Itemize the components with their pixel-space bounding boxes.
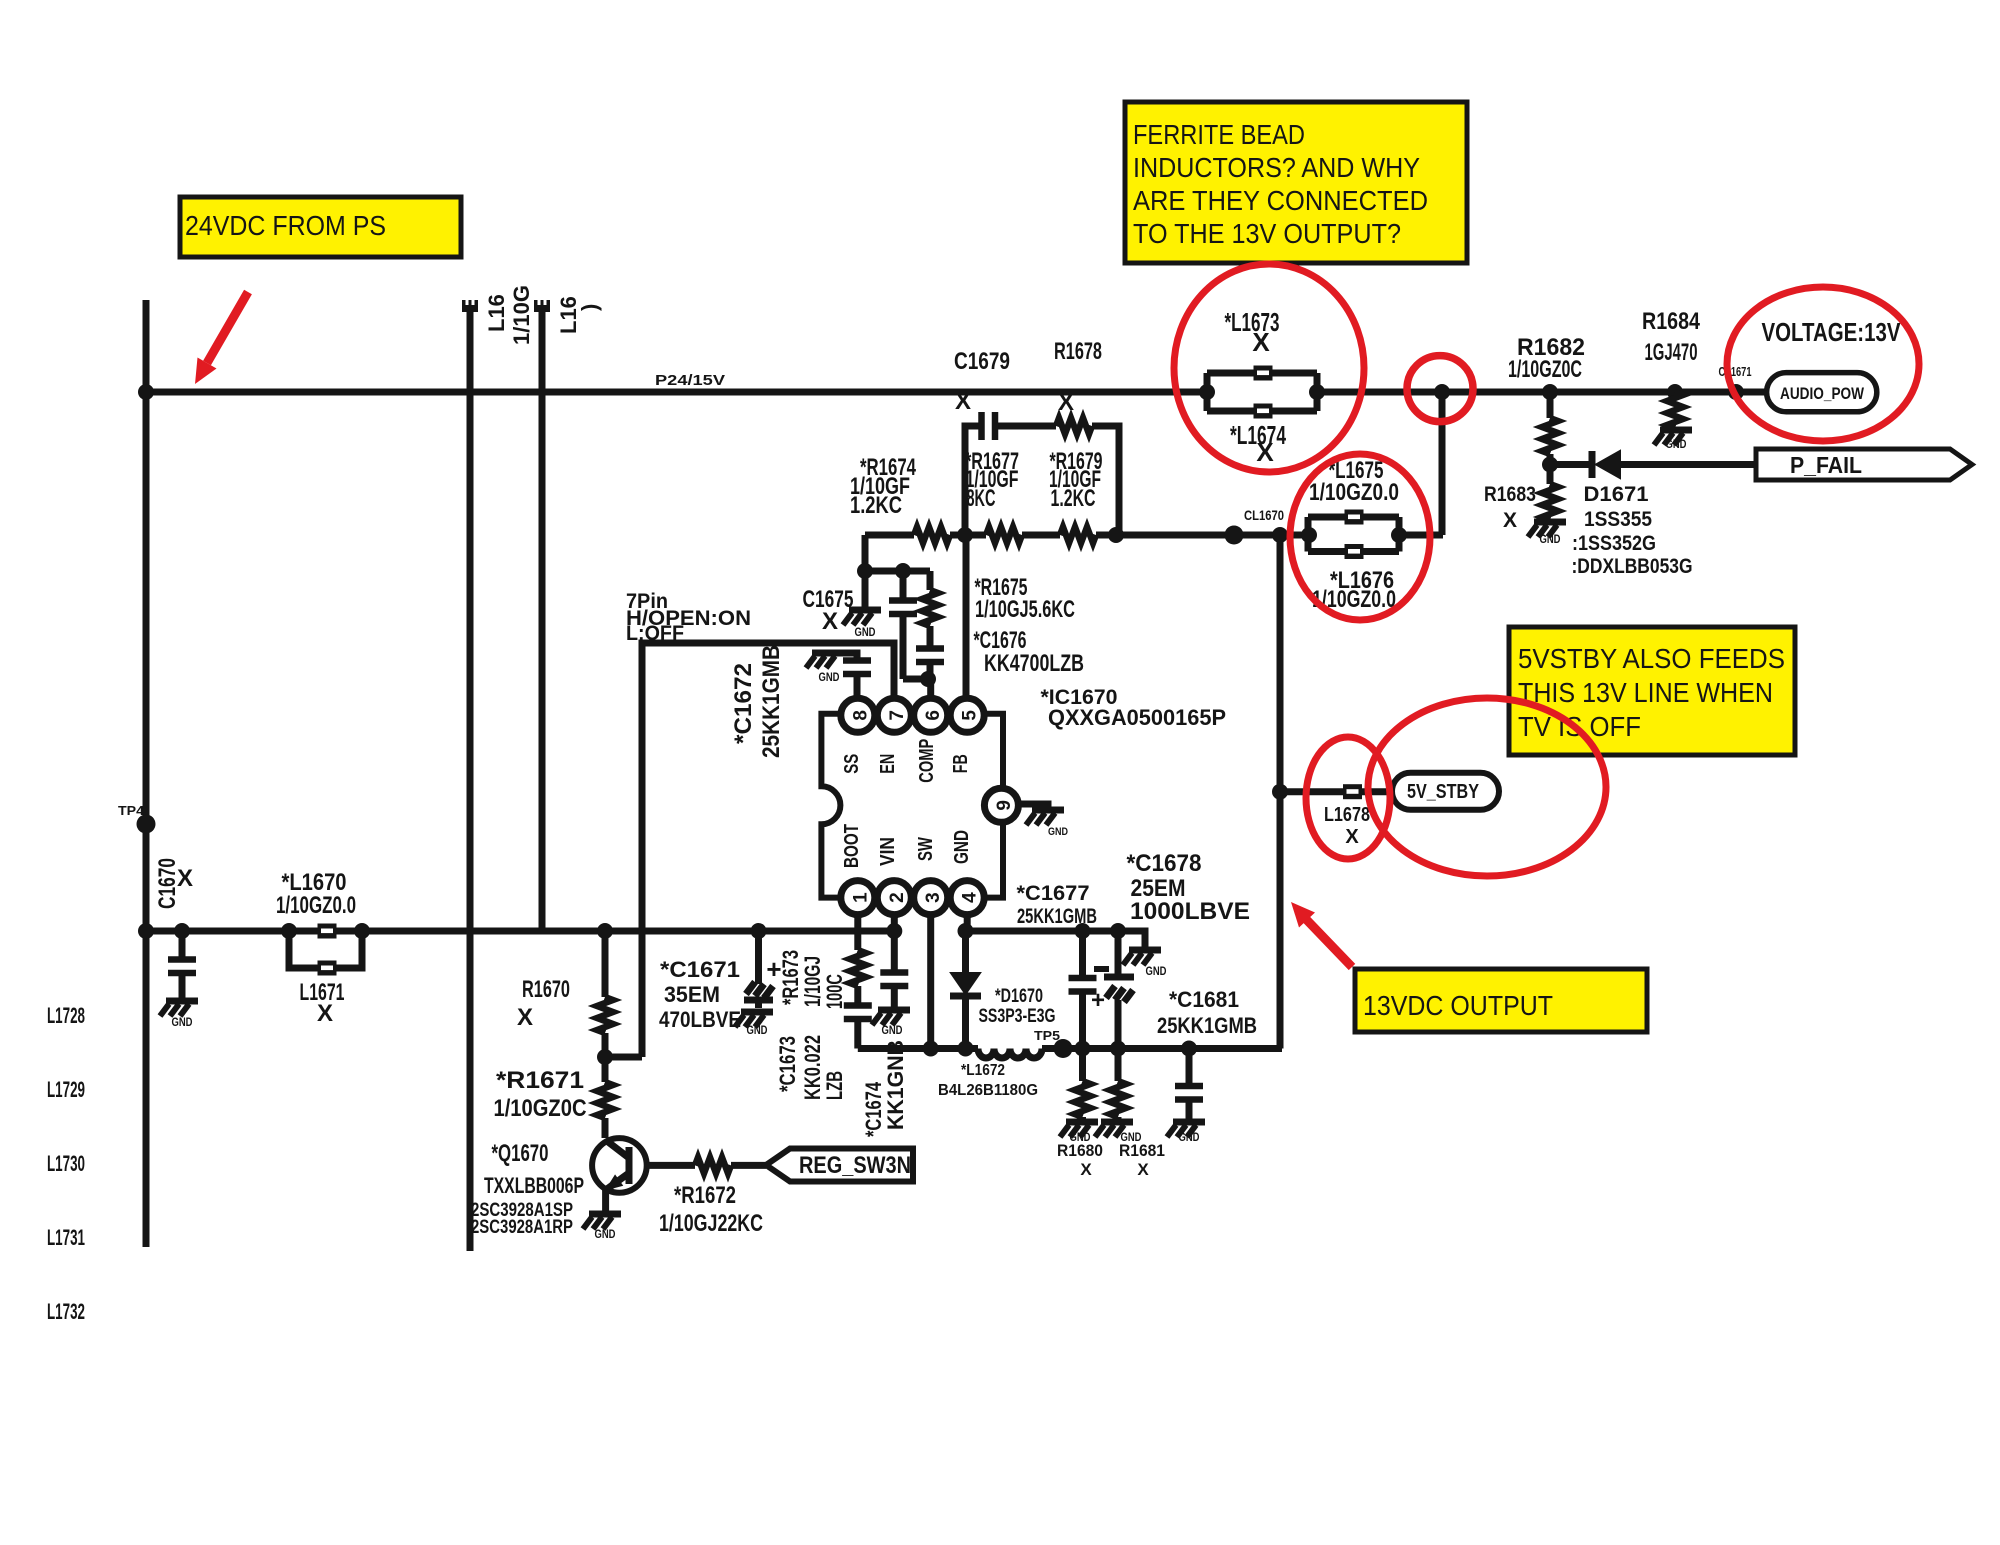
svg-text:QXXGA0500165P: QXXGA0500165P [1048, 705, 1226, 730]
svg-text:2: 2 [887, 892, 908, 903]
svg-text:R1684: R1684 [1642, 308, 1701, 335]
wire: 7Pin EN wire [642, 643, 894, 1057]
svg-text:R1670: R1670 [522, 976, 570, 1003]
ground below C1681 [1167, 1122, 1205, 1144]
svg-text:+: + [766, 954, 781, 984]
annotation red circle around bus node [1407, 356, 1473, 422]
svg-text:VOLTAGE:13V: VOLTAGE:13V [1762, 317, 1902, 347]
svg-text:GND: GND [882, 1023, 903, 1037]
wire: ground rail right of pin 4 [966, 931, 1146, 948]
svg-text:L:OFF: L:OFF [626, 622, 684, 645]
svg-text:6: 6 [923, 710, 944, 721]
svg-text:SW: SW [915, 837, 937, 861]
svg-text:B4L26B1180G: B4L26B1180G [938, 1082, 1038, 1099]
svg-text:GND: GND [855, 625, 876, 639]
svg-text:13VDC OUTPUT: 13VDC OUTPUT [1363, 990, 1553, 1021]
capacitor C1670 [168, 923, 196, 1000]
svg-text:*R1672: *R1672 [674, 1182, 736, 1209]
label L16 right connector (rotated) [556, 296, 602, 334]
resistor R1680 [1075, 1049, 1091, 1121]
svg-text:BOOT: BOOT [841, 824, 863, 868]
resistor R1673 [850, 950, 866, 1006]
svg-text:9: 9 [994, 800, 1015, 811]
svg-text:*C1678: *C1678 [1127, 850, 1202, 877]
svg-text:CL1671: CL1671 [1719, 364, 1752, 379]
ferrite bead L1678 [1343, 784, 1362, 799]
label C1679 [954, 348, 1010, 415]
node: 5V_STBY tap on 13V line [1272, 784, 1288, 800]
label L1729 [47, 1077, 85, 1102]
label L1678 [1324, 804, 1370, 848]
svg-text:R1683: R1683 [1484, 483, 1536, 506]
svg-text:FB: FB [950, 754, 972, 773]
svg-text::1SS352G: :1SS352G [1572, 532, 1656, 555]
label R1680 [1057, 1141, 1103, 1179]
annotation yellow box: 24VDC FROM PS [180, 197, 461, 257]
resistor R1670 [597, 923, 613, 1057]
resistor R1683 [1542, 465, 1558, 521]
label L1670 [276, 869, 356, 919]
resistor R1674 [914, 527, 950, 543]
svg-text:+: + [1091, 987, 1105, 1014]
wire: pin 4 GND down [964, 915, 971, 931]
svg-text:X: X [1256, 437, 1274, 467]
capacitor C1681 [1175, 1041, 1203, 1121]
label L1675 [1309, 457, 1399, 506]
svg-text:*C1672: *C1672 [730, 663, 757, 744]
pin label SS [841, 754, 863, 774]
label R1677 [965, 448, 1019, 512]
svg-text:8KC: 8KC [967, 485, 996, 512]
svg-text:1/10GZ0.0: 1/10GZ0.0 [1309, 479, 1399, 506]
resistor R1678 [1056, 418, 1092, 434]
label net P24/15V [655, 372, 725, 389]
label VOLTAGE:13V [1762, 317, 1902, 347]
label IC1670 [1041, 686, 1227, 730]
svg-text:C1679: C1679 [954, 348, 1010, 375]
resistor R1681 [1110, 1049, 1126, 1121]
label L1728 [47, 1003, 85, 1028]
wire: 13V output vertical line [1277, 535, 1284, 1049]
svg-text:VIN: VIN [877, 837, 899, 866]
label C1672 (rotated) [730, 645, 785, 758]
svg-text:7: 7 [887, 710, 908, 721]
ground stub on ground rail [1123, 950, 1167, 978]
svg-text:ARE THEY CONNECTED: ARE THEY CONNECTED [1133, 185, 1428, 216]
node: 13V vertical top junction [1272, 527, 1288, 543]
svg-text:25KK1GMB: 25KK1GMB [1157, 1013, 1257, 1038]
pin label SW [915, 837, 937, 861]
svg-text:SS: SS [841, 754, 863, 774]
annotation red arrow (24VDC) [195, 292, 248, 384]
svg-text:1.2KC: 1.2KC [1051, 485, 1096, 512]
pin label GND [951, 830, 973, 864]
svg-text:L1731: L1731 [47, 1225, 85, 1250]
label R1673 (rotated) [778, 950, 847, 1009]
svg-text:): ) [577, 304, 602, 311]
label Q1670 [471, 1140, 584, 1238]
svg-text:KK1GNB: KK1GNB [883, 1040, 908, 1130]
svg-text:X: X [177, 865, 193, 892]
ground below C1670 [160, 1001, 198, 1029]
wire: P24/15V top bus [146, 389, 1766, 396]
node TP5 [1034, 1028, 1073, 1058]
svg-text:L16: L16 [556, 296, 581, 334]
label L1732 [47, 1299, 85, 1324]
svg-text:AUDIO_POW: AUDIO_POW [1780, 384, 1865, 403]
capacitor C1678 (electrolytic) [1091, 923, 1134, 1057]
wire: 24V input vertical line (left) [143, 300, 150, 1247]
node: VIN junction [886, 923, 902, 939]
label C1677 [1017, 882, 1098, 928]
node: SW at rail [923, 1041, 939, 1057]
pin label VIN [877, 837, 899, 866]
signal flag REG_SW3N [766, 1149, 913, 1182]
label 7Pin H/OPEN:ON L:OFF [626, 590, 751, 645]
svg-text:L1728: L1728 [47, 1003, 85, 1028]
node: junction R1674/R1677 + FB tap [957, 527, 973, 543]
wire: base wire to R1672 [647, 1162, 695, 1169]
annotation red ellipse around L1678 [1306, 737, 1390, 859]
label R1678 [1054, 338, 1102, 416]
svg-text:GND: GND [595, 1227, 616, 1241]
IC U1 IC1670 body [821, 714, 1003, 898]
pin 2 [877, 881, 911, 915]
svg-text:*C1671: *C1671 [660, 957, 740, 982]
svg-text:X: X [1080, 1160, 1092, 1179]
label R1682 [1508, 334, 1585, 383]
node: comp net left [857, 563, 873, 579]
svg-text:SS3P3-E3G: SS3P3-E3G [979, 1006, 1056, 1027]
wire: FB pin drop to pin 5 [963, 535, 970, 698]
svg-text:25KK1GMB: 25KK1GMB [1017, 905, 1097, 928]
node: bus left end junction [138, 384, 154, 400]
annotation red circle around VOLTAGE:13V [1727, 287, 1919, 441]
label C1678 [1127, 850, 1251, 925]
capacitor C1679 (series horizontal) [982, 412, 996, 440]
svg-text:*C1681: *C1681 [1169, 987, 1239, 1012]
svg-text:R1681: R1681 [1119, 1141, 1165, 1160]
label C1674 (rotated) [861, 1040, 908, 1137]
resistor R1679 [1060, 527, 1096, 543]
wire: comp bottom to pin 6 [903, 679, 931, 698]
svg-text:X: X [1058, 389, 1074, 416]
svg-text:X: X [1137, 1160, 1149, 1179]
node TP4 [118, 803, 156, 834]
resistor R1672 [695, 1157, 766, 1173]
diode D1670 [950, 931, 981, 1049]
label R1672 [659, 1182, 763, 1237]
label R1683 [1484, 483, 1536, 532]
pin 9 [984, 788, 1018, 822]
svg-text:GND: GND [951, 830, 973, 864]
svg-text:CL1670: CL1670 [1244, 508, 1284, 523]
svg-text:GND: GND [172, 1015, 193, 1029]
svg-text:P24/15V: P24/15V [655, 372, 725, 389]
wire: vertical from bus node down to 13V rail [1439, 392, 1446, 535]
svg-text:X: X [955, 388, 971, 415]
svg-text:X: X [1345, 826, 1359, 848]
label L1673 [1225, 307, 1280, 357]
label D1671 [1572, 483, 1693, 578]
label C1671 [659, 957, 741, 1032]
svg-text:GND: GND [1666, 437, 1687, 451]
wire: 5V_STBY branch [1280, 788, 1392, 795]
inductor pair L1670 / L1671 [281, 923, 370, 976]
pin 1 [841, 881, 875, 915]
annotation red circle around 5V_STBY [1368, 698, 1606, 876]
annotation yellow box: FERRITE BEAD INDUCTORS [1125, 102, 1467, 263]
pin label EN [877, 754, 899, 774]
svg-text:L1732: L1732 [47, 1299, 85, 1324]
svg-text:35EM: 35EM [664, 982, 720, 1007]
svg-text:L16: L16 [484, 294, 509, 332]
label L1730 [47, 1151, 85, 1176]
node: bus junction (red circled) [1434, 384, 1450, 400]
svg-text:TXXLBB006P: TXXLBB006P [484, 1173, 584, 1198]
label L1671 [300, 979, 345, 1027]
capacitor C1672 with ground [806, 653, 871, 698]
annotation yellow box: 5VSTBY ALSO FEEDS [1509, 627, 1795, 755]
svg-text:R1678: R1678 [1054, 338, 1102, 365]
label R1681 [1119, 1141, 1165, 1179]
label R1675 [975, 574, 1076, 623]
wire: pin 1 BOOT down [854, 915, 861, 950]
wire: pin 2 VIN down [891, 915, 898, 973]
svg-text:5: 5 [960, 710, 981, 721]
node: R1670/R1671 junction [597, 1049, 642, 1065]
pin label COMP [916, 739, 938, 783]
ground below C1675 [843, 610, 881, 639]
wire: rail corner down to comp node [865, 535, 930, 571]
svg-text:2SC3928A1RP: 2SC3928A1RP [471, 1217, 573, 1238]
svg-text:5V_STBY: 5V_STBY [1407, 781, 1480, 803]
signal flag P_FAIL [1756, 449, 1972, 480]
label C1681 [1157, 987, 1257, 1038]
svg-text:1/10GZ0C: 1/10GZ0C [494, 1095, 587, 1122]
svg-text:P_FAIL: P_FAIL [1790, 452, 1862, 478]
node: D1670 cathode at rail [958, 1041, 974, 1057]
capacitor C1676 (series with R1675) [916, 626, 944, 679]
label C1670 (rotated) with X [154, 858, 193, 909]
capacitor C1675 wire to ground [862, 571, 869, 608]
svg-text:8: 8 [850, 710, 871, 721]
svg-text:FERRITE BEAD: FERRITE BEAD [1133, 119, 1305, 150]
wire: bottom SW/output rail [858, 1045, 1282, 1052]
pin 8 [841, 698, 875, 732]
ground below R1683 [1528, 522, 1566, 546]
pin label FB [950, 754, 972, 773]
svg-text:3: 3 [923, 892, 944, 903]
svg-text:24VDC FROM PS: 24VDC FROM PS [185, 210, 386, 241]
pin label BOOT [841, 824, 863, 868]
annotation red ellipse around L1675/L1676 [1290, 454, 1430, 620]
ground below R1684 [1654, 430, 1692, 451]
svg-text:1/10GZ0.0: 1/10GZ0.0 [276, 892, 356, 919]
svg-text:1SS355: 1SS355 [1584, 508, 1652, 531]
svg-text:L1730: L1730 [47, 1151, 85, 1176]
label D1670 [979, 986, 1056, 1027]
svg-text:TO THE 13V OUTPUT?: TO THE 13V OUTPUT? [1133, 218, 1401, 249]
svg-text:X: X [317, 1000, 333, 1027]
svg-text:R1680: R1680 [1057, 1141, 1103, 1160]
label L1731 [47, 1225, 85, 1250]
svg-text:*D1670: *D1670 [995, 986, 1043, 1007]
wire: feedback rail y=535 [865, 532, 1443, 539]
label C1676 [974, 627, 1085, 677]
connector pin top left [462, 300, 478, 312]
resistor R1682 [1542, 392, 1558, 465]
svg-text:*Q1670: *Q1670 [492, 1140, 549, 1167]
svg-text:L1678: L1678 [1324, 804, 1370, 826]
label R1684 [1642, 308, 1701, 366]
pin 5 [950, 698, 984, 732]
svg-text:EN: EN [877, 754, 899, 774]
inductor L1672 (coil) [978, 1049, 1042, 1059]
svg-text:GND: GND [1179, 1130, 1200, 1144]
diode D1671 [1550, 451, 1756, 478]
svg-text:KK4700LZB: KK4700LZB [984, 650, 1084, 677]
node: comp net mid [895, 563, 911, 579]
wire: lower 24V rail [146, 928, 894, 935]
label C1675 [803, 586, 854, 635]
pin 6 [914, 698, 948, 732]
ground below R1680 [1060, 1122, 1098, 1144]
svg-text:GND: GND [1146, 964, 1167, 978]
svg-text:1.2KC: 1.2KC [850, 492, 902, 519]
inductor pair L1675 / L1676 [1301, 510, 1407, 560]
svg-text:470LBVE: 470LBVE [659, 1007, 741, 1032]
capacitor C1673 (series) [844, 1006, 872, 1049]
node: comp bottom junction [920, 671, 936, 687]
svg-text:THIS 13V LINE WHEN: THIS 13V LINE WHEN [1518, 677, 1773, 708]
ground at pin 9 [1026, 810, 1068, 838]
label C1673 (rotated) [775, 1035, 847, 1100]
capacitor comp parallel branch [889, 571, 917, 679]
svg-text:TP4: TP4 [118, 803, 145, 818]
label L1676 [1312, 567, 1396, 613]
svg-text:*L1672: *L1672 [961, 1062, 1005, 1079]
svg-text:X: X [822, 608, 838, 635]
capacitor C1674 [880, 973, 908, 1009]
resistor R1671 [597, 1057, 613, 1138]
ground below C1671 [735, 1012, 773, 1037]
svg-text:X: X [1503, 509, 1517, 532]
ground below C1674 [872, 1010, 910, 1037]
inductor pair L1673 / L1674 [1199, 366, 1325, 419]
node CL1671 [1719, 364, 1752, 400]
connector pin top right [534, 300, 550, 312]
svg-text:1: 1 [850, 892, 871, 903]
svg-text:GND: GND [747, 1023, 768, 1037]
label R1670 [517, 976, 570, 1031]
label L1674 [1230, 420, 1286, 467]
svg-text:REG_SW3N: REG_SW3N [799, 1152, 911, 1179]
wire: C1679/R1678 parallel branch [965, 426, 1119, 535]
label R1671 [494, 1067, 587, 1122]
pin 7 [877, 698, 911, 732]
svg-text:X: X [1252, 327, 1270, 357]
capacitor C1677 [1069, 923, 1097, 1057]
svg-text:1/10GZ0C: 1/10GZ0C [1508, 356, 1582, 383]
svg-text:L1729: L1729 [47, 1077, 85, 1102]
pin 4 [950, 881, 984, 915]
capacitor C1671 (electrolytic input) [744, 923, 782, 1008]
node: R1682/R1683/D1671 junction [1542, 457, 1558, 473]
svg-text:5VSTBY ALSO FEEDS: 5VSTBY ALSO FEEDS [1518, 643, 1785, 674]
node: junction R1679 right branch up [1108, 527, 1124, 543]
svg-text:*R1671: *R1671 [496, 1067, 584, 1094]
svg-text:GND: GND [1048, 826, 1068, 838]
node: rail left junction [138, 923, 154, 939]
svg-text:LZB: LZB [822, 1071, 847, 1100]
wire: vertical line from connector (x=470) [467, 312, 474, 1251]
svg-text:1GJ470: 1GJ470 [1645, 339, 1698, 366]
svg-text:GND: GND [1540, 532, 1561, 546]
net label 5V_STBY (stadium) [1392, 773, 1499, 810]
svg-text:1/10G: 1/10G [509, 285, 534, 345]
annotation red ellipse around L1673/L1674 [1174, 264, 1364, 472]
annotation yellow box: 13VDC OUTPUT [1355, 969, 1647, 1032]
net label AUDIO_POW (stadium) [1767, 373, 1877, 412]
svg-text:COMP: COMP [916, 739, 938, 783]
svg-text:*C1677: *C1677 [1017, 882, 1090, 905]
svg-text::DDXLBB053G: :DDXLBB053G [1572, 555, 1693, 578]
svg-text:100C: 100C [822, 974, 847, 1009]
pin 3 [914, 881, 948, 915]
resistor R1675 [922, 571, 938, 626]
svg-text:D1671: D1671 [1584, 483, 1649, 506]
resistor R1684 [1667, 392, 1683, 428]
node: R1682 tap on bus [1542, 384, 1558, 400]
ground below R1681 [1095, 1122, 1142, 1144]
wire: pin 3 SW down to rail [927, 915, 934, 1049]
svg-text:INDUCTORS? AND WHY: INDUCTORS? AND WHY [1133, 152, 1420, 183]
node CL1670 [1225, 508, 1285, 545]
label L16 left connector (rotated) [484, 285, 534, 345]
label R1679 [1049, 448, 1103, 512]
annotation red arrow (13VDC output) [1291, 902, 1352, 967]
label L1672 [938, 1062, 1038, 1099]
svg-text:1000LBVE: 1000LBVE [1130, 898, 1250, 925]
transistor Q1670 [592, 1138, 647, 1212]
wire: pin 9 to ground [1018, 804, 1048, 808]
resistor R1677 [986, 527, 1022, 543]
label R1674 [850, 454, 916, 519]
svg-text:GND: GND [819, 670, 840, 684]
svg-text:*C1673: *C1673 [775, 1036, 800, 1092]
svg-text:1/10GJ22KC: 1/10GJ22KC [659, 1210, 763, 1237]
wire: vertical line from connector (x=542) [539, 312, 546, 931]
node: GND rail junction at pin 4 [958, 923, 974, 939]
svg-text:25KK1GMB: 25KK1GMB [758, 645, 785, 758]
node: R1684 tap on bus [1667, 384, 1683, 400]
svg-text:4: 4 [960, 892, 981, 903]
svg-text:TP5: TP5 [1034, 1028, 1060, 1043]
svg-text:1/10GJ5.6KC: 1/10GJ5.6KC [975, 596, 1075, 623]
ground below Q1670 emitter [583, 1214, 621, 1241]
svg-text:X: X [517, 1004, 533, 1031]
